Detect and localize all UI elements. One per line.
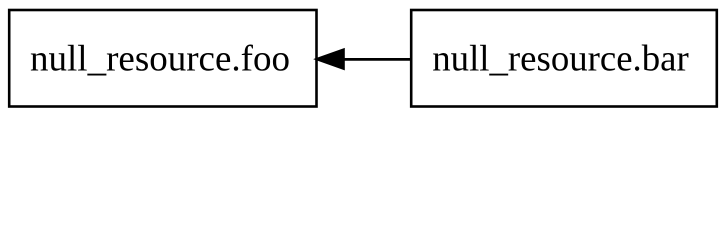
svg-text:null_resource.foo: null_resource.foo: [30, 39, 290, 80]
edge null_resource.bar to null_resource.foo: [342, 58, 411, 61]
arrowhead: [317, 50, 344, 69]
node null_resource.bar: [411, 10, 717, 107]
svg-text:null_resource.bar: null_resource.bar: [432, 38, 688, 79]
node null_resource.foo: [9, 10, 316, 107]
